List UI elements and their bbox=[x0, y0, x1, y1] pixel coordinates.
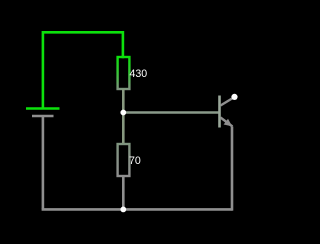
transistor Q1 emitter line bbox=[221, 118, 233, 127]
wire battery - down bbox=[42, 116, 45, 209]
label 70 bbox=[129, 155, 141, 167]
resistor R2 bottom lead bbox=[122, 176, 125, 209]
wire base net (node to transistor base) bbox=[123, 111, 218, 114]
resistor R2 70 body bbox=[118, 144, 130, 176]
transistor Q1 collector line bbox=[221, 97, 235, 106]
battery V1 positive plate bbox=[26, 107, 60, 110]
wire ground rail bottom bbox=[42, 208, 233, 211]
wire positive net (battery + to R1 top) bbox=[43, 32, 123, 108]
resistor R2 70 top lead bbox=[122, 113, 125, 144]
resistor R1 bottom lead bbox=[122, 89, 125, 113]
transistor Q1 base bar bbox=[218, 96, 221, 128]
collector open post bbox=[231, 94, 237, 100]
label 430 bbox=[130, 68, 148, 80]
svg-text:70: 70 bbox=[129, 155, 141, 167]
node junction dot (ground rail) bbox=[120, 207, 126, 213]
resistor R1 430 body bbox=[118, 57, 130, 89]
battery V1 negative plate bbox=[32, 115, 54, 118]
svg-text:430: 430 bbox=[130, 68, 148, 80]
transistor Q1 emitter arrow bbox=[224, 119, 233, 127]
node junction dot (base divider) bbox=[120, 110, 126, 116]
wire emitter down bbox=[231, 127, 234, 211]
